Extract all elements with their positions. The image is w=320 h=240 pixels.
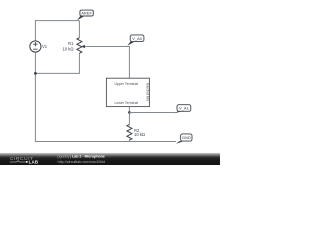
svg-text:V_A1: V_A1 xyxy=(179,106,190,111)
svg-text:GND: GND xyxy=(182,135,191,140)
electret microphone module box xyxy=(106,78,149,106)
wire from R1 bottom to mid rail xyxy=(35,53,80,73)
junction at V1 rail and R1 bottom xyxy=(34,72,37,75)
svg-text:pgodoy | Lab 2 - Microphone: pgodoy | Lab 2 - Microphone xyxy=(58,155,105,159)
svg-text:Upper Terminal: Upper Terminal xyxy=(114,82,138,86)
voltage source V1 xyxy=(30,41,48,52)
resistor R2 xyxy=(127,125,145,140)
svg-text:V_A0: V_A0 xyxy=(132,36,143,41)
wire from junction down to R2 top xyxy=(128,113,130,125)
resistor R1 (potentiometer) xyxy=(62,38,85,54)
wire from V1 top to top-left corner xyxy=(34,21,36,41)
watermark caption line 2 xyxy=(58,160,107,164)
svg-text:LAB: LAB xyxy=(29,159,39,164)
CircuitLab logo xyxy=(10,156,38,164)
flag V_A0 xyxy=(127,35,144,46)
wire from R1 wiper to V_A0 corner xyxy=(85,46,130,48)
flag V_A1 xyxy=(175,105,191,114)
flag AREF xyxy=(77,10,93,20)
svg-text:Electret Mic: Electret Mic xyxy=(145,83,149,102)
wire from R2 bottom to bottom rail xyxy=(128,140,130,142)
watermark caption line 1 xyxy=(58,155,105,159)
svg-text:V1: V1 xyxy=(42,44,48,49)
svg-text:http://circuitlab.com/cwc53rkt: http://circuitlab.com/cwc53rkt xyxy=(58,160,107,164)
svg-text:Lower Terminal: Lower Terminal xyxy=(114,101,138,105)
svg-text:10 kΩ: 10 kΩ xyxy=(134,132,145,137)
junction at mic output node xyxy=(128,111,131,114)
wire from junction to V_A1 flag xyxy=(129,112,175,114)
svg-text:AREF: AREF xyxy=(81,11,92,16)
wire bottom rail to GND flag xyxy=(35,141,176,143)
wire from mic lower terminal to junction xyxy=(128,107,130,113)
wire from corner down to R1 top xyxy=(78,21,80,38)
wire from V_A0 corner down to mic upper terminal xyxy=(128,46,130,78)
watermark bar xyxy=(0,153,220,165)
flag GND (ground) xyxy=(176,134,192,144)
svg-text:10 kΩ: 10 kΩ xyxy=(62,46,73,51)
wire from V1 bottom down left rail xyxy=(34,52,36,141)
wire top horizontal to R1 xyxy=(35,20,80,22)
